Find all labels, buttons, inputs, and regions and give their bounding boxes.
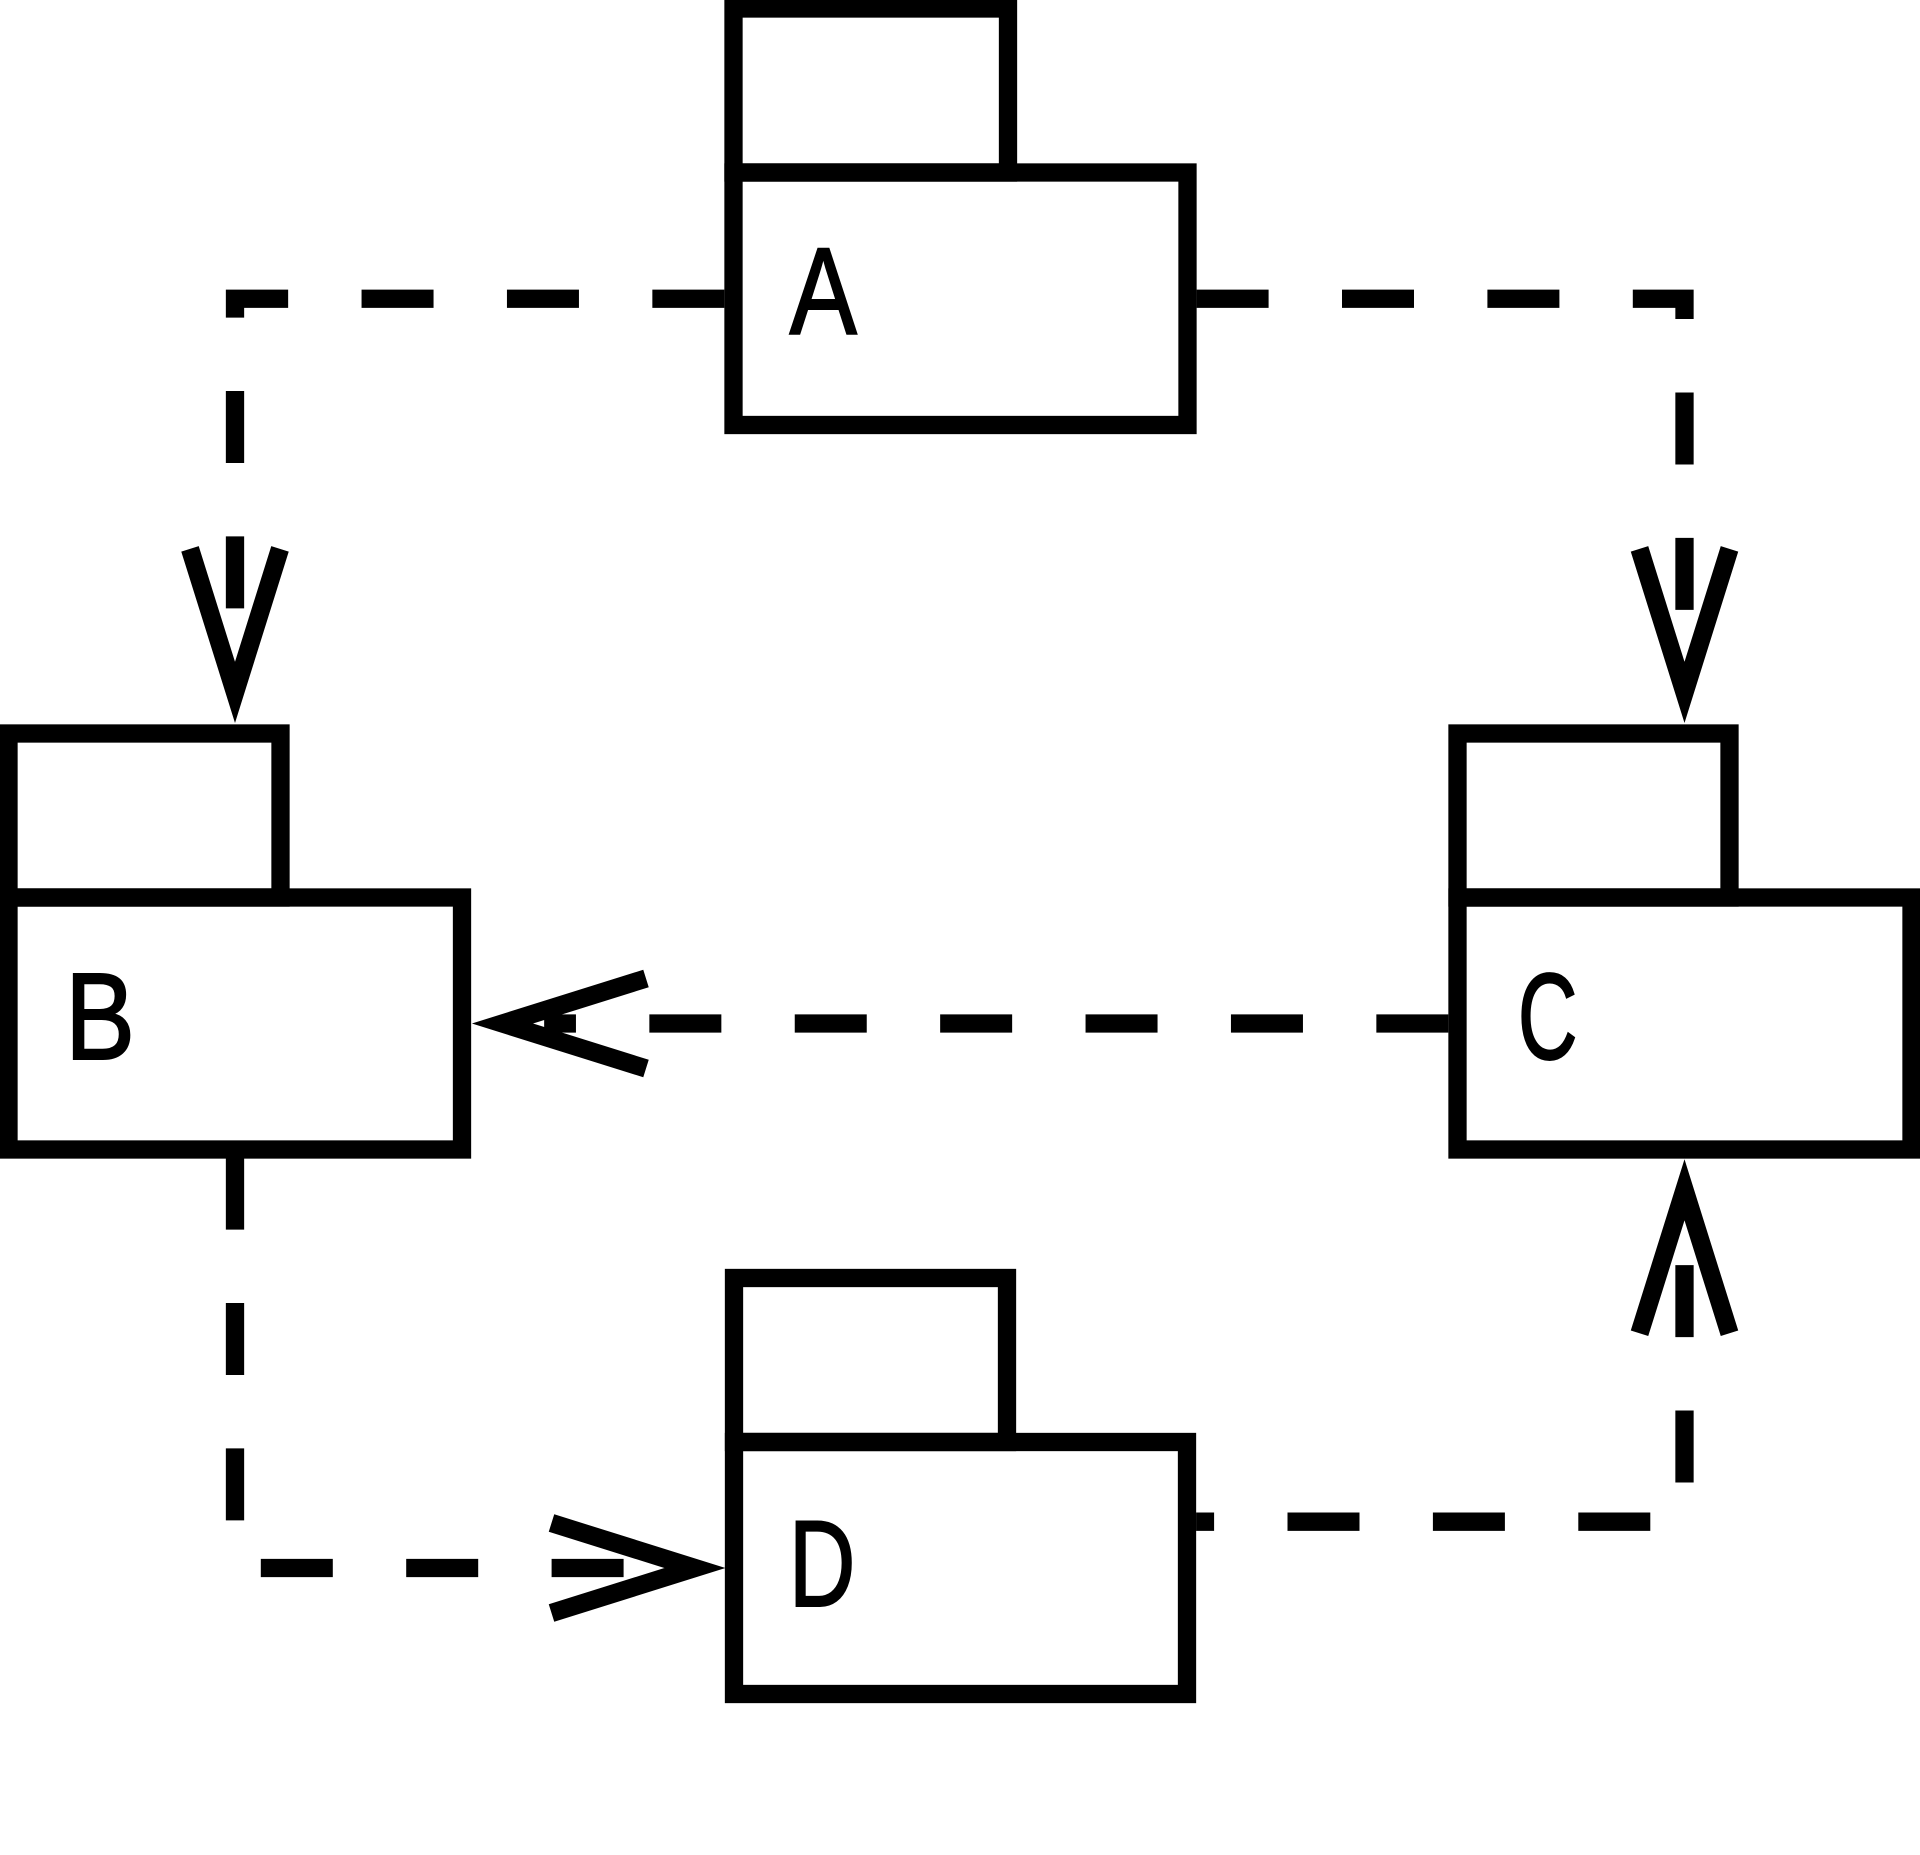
wire A to B dashed — [235, 299, 724, 652]
arrowhead into C tab — [1640, 549, 1730, 693]
package B — [9, 734, 463, 1150]
svg-text:D: D — [789, 1496, 856, 1633]
package C — [1458, 734, 1912, 1150]
arrowhead into D left side — [552, 1523, 695, 1613]
arrowhead into B right side — [503, 979, 647, 1069]
wire D to C dashed — [1196, 1231, 1684, 1521]
svg-text:A: A — [790, 222, 857, 360]
svg-text:C: C — [1518, 948, 1578, 1085]
arrowhead into C bottom — [1640, 1190, 1730, 1334]
package A — [734, 9, 1188, 426]
svg-text:B: B — [65, 949, 135, 1086]
arrowhead into B tab — [190, 549, 280, 693]
wire C to B dashed — [544, 1014, 1448, 1032]
package D — [734, 1278, 1187, 1694]
wire B to D dashed — [235, 1158, 652, 1568]
wire A to C dashed — [1197, 299, 1685, 652]
